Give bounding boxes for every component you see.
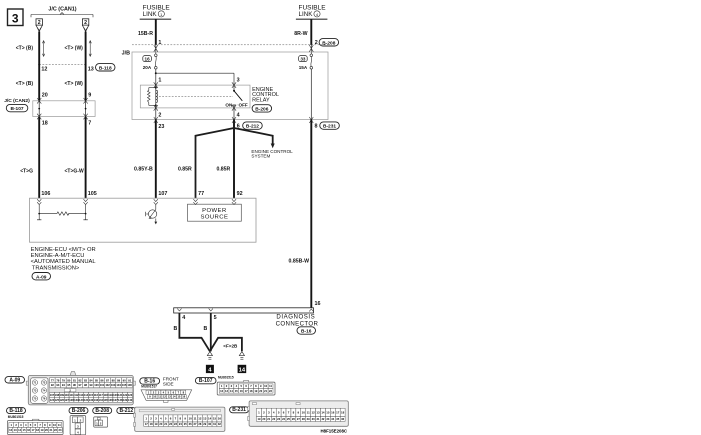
svg-text:11: 11	[307, 411, 310, 415]
svg-text:77: 77	[198, 191, 204, 197]
svg-text:12: 12	[220, 389, 223, 393]
svg-text:B-206: B-206	[255, 107, 268, 113]
svg-text:B-212: B-212	[246, 124, 259, 130]
svg-text:J/C (CAN2): J/C (CAN2)	[4, 98, 30, 104]
svg-text:90: 90	[123, 378, 126, 382]
svg-text:ENGINE-ECU <M/T> OR: ENGINE-ECU <M/T> OR	[31, 247, 96, 253]
svg-text:RELAY: RELAY	[252, 97, 270, 103]
svg-text:81: 81	[73, 378, 76, 382]
svg-text:16: 16	[145, 57, 151, 62]
svg-text:14: 14	[321, 411, 325, 415]
svg-text:15: 15	[213, 417, 217, 421]
svg-text:5: 5	[214, 315, 217, 321]
svg-text:23: 23	[174, 422, 177, 426]
svg-text:74: 74	[42, 389, 45, 393]
svg-text:102: 102	[105, 383, 110, 387]
svg-text:<T> (B): <T> (B)	[16, 46, 34, 52]
svg-text:22: 22	[169, 422, 172, 426]
svg-text:22: 22	[54, 428, 57, 432]
svg-text:8R-W: 8R-W	[294, 31, 307, 37]
svg-text:ON: ON	[225, 103, 233, 108]
svg-text:13: 13	[203, 417, 207, 421]
svg-text:18: 18	[36, 428, 39, 432]
svg-text:13: 13	[168, 395, 171, 399]
svg-text:29: 29	[203, 422, 206, 426]
svg-text:19: 19	[154, 422, 157, 426]
svg-text:H8F15E208C: H8F15E208C	[321, 429, 348, 434]
svg-text:15: 15	[177, 395, 180, 399]
svg-text:23: 23	[58, 428, 61, 432]
svg-text:14: 14	[208, 417, 212, 421]
svg-text:24: 24	[179, 422, 182, 426]
svg-text:14: 14	[18, 428, 21, 432]
svg-text:SIDE: SIDE	[163, 381, 174, 386]
svg-text:105: 105	[88, 191, 97, 197]
svg-text:35: 35	[336, 417, 339, 421]
svg-text:80: 80	[67, 378, 70, 382]
svg-text:SYSTEM: SYSTEM	[251, 154, 270, 159]
svg-text:<T>G: <T>G	[20, 169, 33, 175]
svg-text:11: 11	[269, 384, 272, 388]
svg-text:14: 14	[230, 389, 233, 393]
svg-text:12: 12	[163, 395, 166, 399]
svg-text:19: 19	[41, 428, 44, 432]
svg-text:33: 33	[326, 417, 329, 421]
svg-text:13: 13	[14, 428, 17, 432]
svg-text:0.85B-W: 0.85B-W	[289, 258, 310, 264]
svg-text:2: 2	[315, 40, 318, 46]
svg-text:19: 19	[254, 389, 257, 393]
svg-text:7: 7	[88, 121, 91, 127]
svg-text:10: 10	[264, 384, 267, 388]
svg-text:87: 87	[106, 378, 109, 382]
svg-text:3: 3	[12, 12, 19, 26]
svg-text:17: 17	[245, 389, 248, 393]
svg-text:20: 20	[159, 422, 162, 426]
svg-text:93: 93	[56, 383, 59, 387]
svg-text:<T> (B): <T> (B)	[16, 81, 34, 87]
svg-text:<T> (W): <T> (W)	[65, 81, 84, 87]
svg-text:A-09: A-09	[36, 274, 47, 280]
svg-text:TRANSMISSION>: TRANSMISSION>	[32, 265, 80, 271]
svg-text:105: 105	[122, 383, 127, 387]
svg-text:19: 19	[257, 417, 260, 421]
svg-text:89: 89	[117, 378, 120, 382]
svg-text:27: 27	[193, 422, 196, 426]
svg-text:18: 18	[249, 389, 252, 393]
svg-text:10: 10	[302, 411, 306, 415]
svg-text:15: 15	[23, 428, 26, 432]
svg-text:4: 4	[237, 113, 240, 119]
svg-text:31: 31	[317, 417, 320, 421]
svg-text:12: 12	[9, 428, 12, 432]
svg-text:101: 101	[100, 383, 105, 387]
svg-text:99: 99	[90, 383, 93, 387]
svg-text:2: 2	[158, 113, 161, 119]
svg-text:104: 104	[116, 383, 121, 387]
svg-text:B-107: B-107	[11, 106, 24, 112]
svg-text:25: 25	[184, 422, 187, 426]
svg-text:POWER: POWER	[202, 208, 227, 214]
svg-text:29: 29	[307, 417, 310, 421]
svg-text:LINK: LINK	[143, 11, 158, 18]
svg-text:23: 23	[277, 417, 280, 421]
svg-text:20A: 20A	[143, 65, 152, 70]
svg-text:32: 32	[218, 422, 221, 426]
svg-text:<F>2B: <F>2B	[223, 344, 238, 349]
svg-text:100: 100	[94, 383, 99, 387]
svg-text:97: 97	[78, 383, 81, 387]
svg-text:36: 36	[341, 417, 344, 421]
svg-text:13: 13	[316, 411, 320, 415]
svg-text:18: 18	[341, 411, 345, 415]
svg-text:75: 75	[33, 397, 36, 401]
svg-text:24: 24	[282, 417, 285, 421]
svg-text:20: 20	[42, 93, 48, 99]
svg-text:B-107: B-107	[199, 378, 213, 384]
svg-text:25: 25	[287, 417, 290, 421]
svg-text:21: 21	[164, 422, 167, 426]
svg-text:B: B	[173, 326, 177, 332]
svg-text:15B-R: 15B-R	[138, 31, 153, 37]
svg-text:34: 34	[331, 417, 334, 421]
svg-text:MU801517: MU801517	[141, 385, 157, 389]
svg-text:28: 28	[302, 417, 305, 421]
svg-text:92: 92	[51, 383, 54, 387]
svg-text:B-208: B-208	[95, 408, 109, 414]
svg-text:15A: 15A	[299, 65, 308, 70]
svg-text:17: 17	[336, 411, 340, 415]
svg-text:MU801515: MU801515	[8, 415, 24, 419]
svg-text:0.85Y-B: 0.85Y-B	[134, 167, 153, 173]
svg-text:1: 1	[158, 40, 161, 46]
svg-text:<AUTOMATED MANUAL: <AUTOMATED MANUAL	[31, 259, 97, 265]
svg-text:22: 22	[272, 417, 275, 421]
svg-text:9: 9	[88, 93, 91, 99]
svg-text:ENGINE-A-M/T-ECU: ENGINE-A-M/T-ECU	[31, 253, 85, 259]
svg-text:SOURCE: SOURCE	[200, 215, 228, 221]
svg-text:20: 20	[259, 389, 262, 393]
svg-text:0.85R: 0.85R	[216, 167, 230, 173]
svg-text:78: 78	[56, 378, 59, 382]
svg-text:17: 17	[32, 428, 35, 432]
svg-text:106: 106	[127, 383, 132, 387]
svg-text:106: 106	[41, 191, 50, 197]
svg-text:98: 98	[84, 383, 87, 387]
svg-text:B-206: B-206	[72, 408, 86, 414]
svg-text:16: 16	[182, 395, 185, 399]
svg-text:28: 28	[198, 422, 201, 426]
svg-text:26: 26	[292, 417, 295, 421]
svg-text:16: 16	[218, 417, 222, 421]
svg-text:86: 86	[101, 378, 104, 382]
svg-text:27: 27	[297, 417, 300, 421]
svg-text:B-208: B-208	[322, 40, 335, 46]
svg-text:72: 72	[42, 381, 45, 385]
svg-text:20: 20	[262, 417, 265, 421]
svg-text:123: 123	[128, 393, 133, 397]
svg-text:<T>G-W: <T>G-W	[65, 169, 84, 175]
svg-text:10: 10	[189, 417, 193, 421]
svg-text:11: 11	[158, 395, 161, 399]
svg-text:79: 79	[62, 378, 65, 382]
svg-text:J/C (CAN1): J/C (CAN1)	[48, 7, 76, 13]
svg-text:B: B	[203, 326, 207, 332]
svg-text:21: 21	[267, 417, 270, 421]
svg-text:95: 95	[67, 383, 70, 387]
svg-text:MU801515: MU801515	[218, 375, 234, 379]
svg-text:B-118: B-118	[99, 65, 112, 71]
svg-text:B-118: B-118	[9, 408, 23, 414]
svg-text:33: 33	[300, 57, 306, 62]
svg-text:13: 13	[225, 389, 228, 393]
svg-text:32: 32	[321, 417, 324, 421]
svg-text:A-09: A-09	[9, 377, 20, 383]
svg-text:107: 107	[158, 191, 167, 197]
svg-text:13: 13	[88, 67, 94, 73]
svg-text:20: 20	[45, 428, 48, 432]
svg-text:B-212: B-212	[119, 408, 133, 414]
svg-text:12: 12	[41, 67, 47, 73]
svg-text:88: 88	[112, 378, 115, 382]
svg-text:11: 11	[193, 417, 196, 421]
svg-text:DIAGNOSIS: DIAGNOSIS	[276, 313, 315, 320]
svg-text:82: 82	[78, 378, 81, 382]
svg-text:B-16: B-16	[301, 329, 312, 335]
svg-text:84: 84	[90, 378, 93, 382]
svg-text:LINK: LINK	[299, 11, 314, 18]
svg-text:30: 30	[208, 422, 211, 426]
svg-text:71: 71	[33, 381, 36, 385]
svg-text:8: 8	[315, 124, 318, 130]
svg-text:15: 15	[235, 389, 238, 393]
svg-text:12: 12	[311, 411, 315, 415]
svg-text:92: 92	[237, 191, 243, 197]
svg-text:77: 77	[51, 378, 54, 382]
svg-text:10: 10	[153, 395, 156, 399]
svg-text:3: 3	[237, 78, 240, 84]
svg-text:0.85R: 0.85R	[178, 167, 192, 173]
svg-text:73: 73	[33, 389, 36, 393]
svg-text:140: 140	[128, 398, 133, 402]
svg-text:<T> (W): <T> (W)	[65, 46, 84, 52]
svg-text:4: 4	[182, 315, 185, 321]
svg-text:J/B: J/B	[122, 51, 130, 57]
svg-text:85: 85	[95, 378, 98, 382]
svg-text:94: 94	[62, 383, 65, 387]
svg-text:15: 15	[326, 411, 330, 415]
svg-text:91: 91	[128, 378, 131, 382]
svg-text:16: 16	[240, 389, 243, 393]
svg-text:B-231: B-231	[232, 407, 246, 413]
svg-text:14: 14	[239, 368, 246, 374]
svg-text:30: 30	[312, 417, 315, 421]
svg-text:16: 16	[315, 301, 321, 307]
svg-text:22: 22	[269, 389, 272, 393]
svg-text:103: 103	[111, 383, 116, 387]
svg-text:17: 17	[145, 422, 148, 426]
svg-text:14: 14	[173, 395, 176, 399]
svg-text:83: 83	[84, 378, 87, 382]
svg-text:12: 12	[198, 417, 202, 421]
svg-text:10: 10	[53, 423, 56, 427]
svg-text:76: 76	[42, 397, 45, 401]
svg-text:18: 18	[42, 121, 48, 127]
svg-text:1: 1	[158, 78, 161, 84]
svg-text:96: 96	[73, 383, 76, 387]
svg-text:18: 18	[150, 422, 153, 426]
svg-text:21: 21	[49, 428, 52, 432]
svg-text:31: 31	[213, 422, 216, 426]
svg-text:16: 16	[331, 411, 335, 415]
svg-text:21: 21	[264, 389, 267, 393]
svg-text:B-231: B-231	[323, 124, 336, 130]
svg-text:OFF: OFF	[239, 103, 248, 108]
svg-text:16: 16	[27, 428, 30, 432]
svg-text:26: 26	[189, 422, 192, 426]
svg-text:11: 11	[58, 423, 61, 427]
svg-text:23: 23	[158, 124, 164, 130]
